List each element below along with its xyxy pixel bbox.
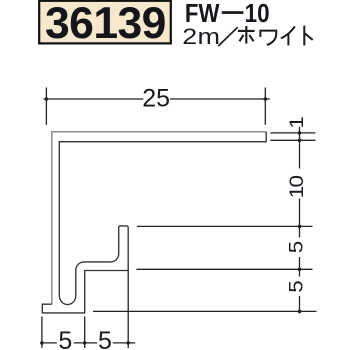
svg-text:2: 2 xyxy=(182,25,197,49)
fullwidth slash xyxy=(218,27,237,46)
svg-text:FW: FW xyxy=(185,0,220,28)
dim 25 line xyxy=(44,98,270,100)
bottom dimension line xyxy=(42,342,135,344)
svg-text:5: 5 xyxy=(58,327,72,350)
bottom extension middle xyxy=(84,316,86,348)
profile outline (bar, wall, foot, leg, web, tab) xyxy=(42,132,266,313)
svg-text:5: 5 xyxy=(286,241,307,253)
bottom extension left xyxy=(41,316,43,347)
dim 25 extension left xyxy=(45,88,47,125)
svg-text:25: 25 xyxy=(142,85,170,113)
katakana TO xyxy=(304,26,312,46)
profile outer face (bar top and wall outer) xyxy=(52,132,266,304)
dimension dots xyxy=(40,97,301,345)
model code FW-10 xyxy=(185,0,270,28)
right dimension line xyxy=(299,127,301,314)
katakana I xyxy=(281,26,295,45)
extension tab top xyxy=(137,225,313,227)
svg-text:m: m xyxy=(198,25,221,49)
dim 1 extension top xyxy=(270,132,315,134)
extension web bottom xyxy=(137,268,313,270)
dim 1 extension bottom xyxy=(270,139,315,141)
svg-text:5: 5 xyxy=(286,280,307,292)
katakana HO xyxy=(238,26,255,44)
svg-text:5: 5 xyxy=(98,327,112,350)
svg-text:1: 1 xyxy=(286,116,307,128)
svg-text:10: 10 xyxy=(245,0,270,28)
dim 25 extension right xyxy=(264,88,266,125)
extension foot bottom xyxy=(93,310,317,312)
katakana WA xyxy=(260,31,276,45)
part number box xyxy=(39,0,171,48)
svg-text:36139: 36139 xyxy=(45,0,166,48)
bottom extension right xyxy=(127,271,129,349)
svg-text:1: 1 xyxy=(286,186,307,198)
